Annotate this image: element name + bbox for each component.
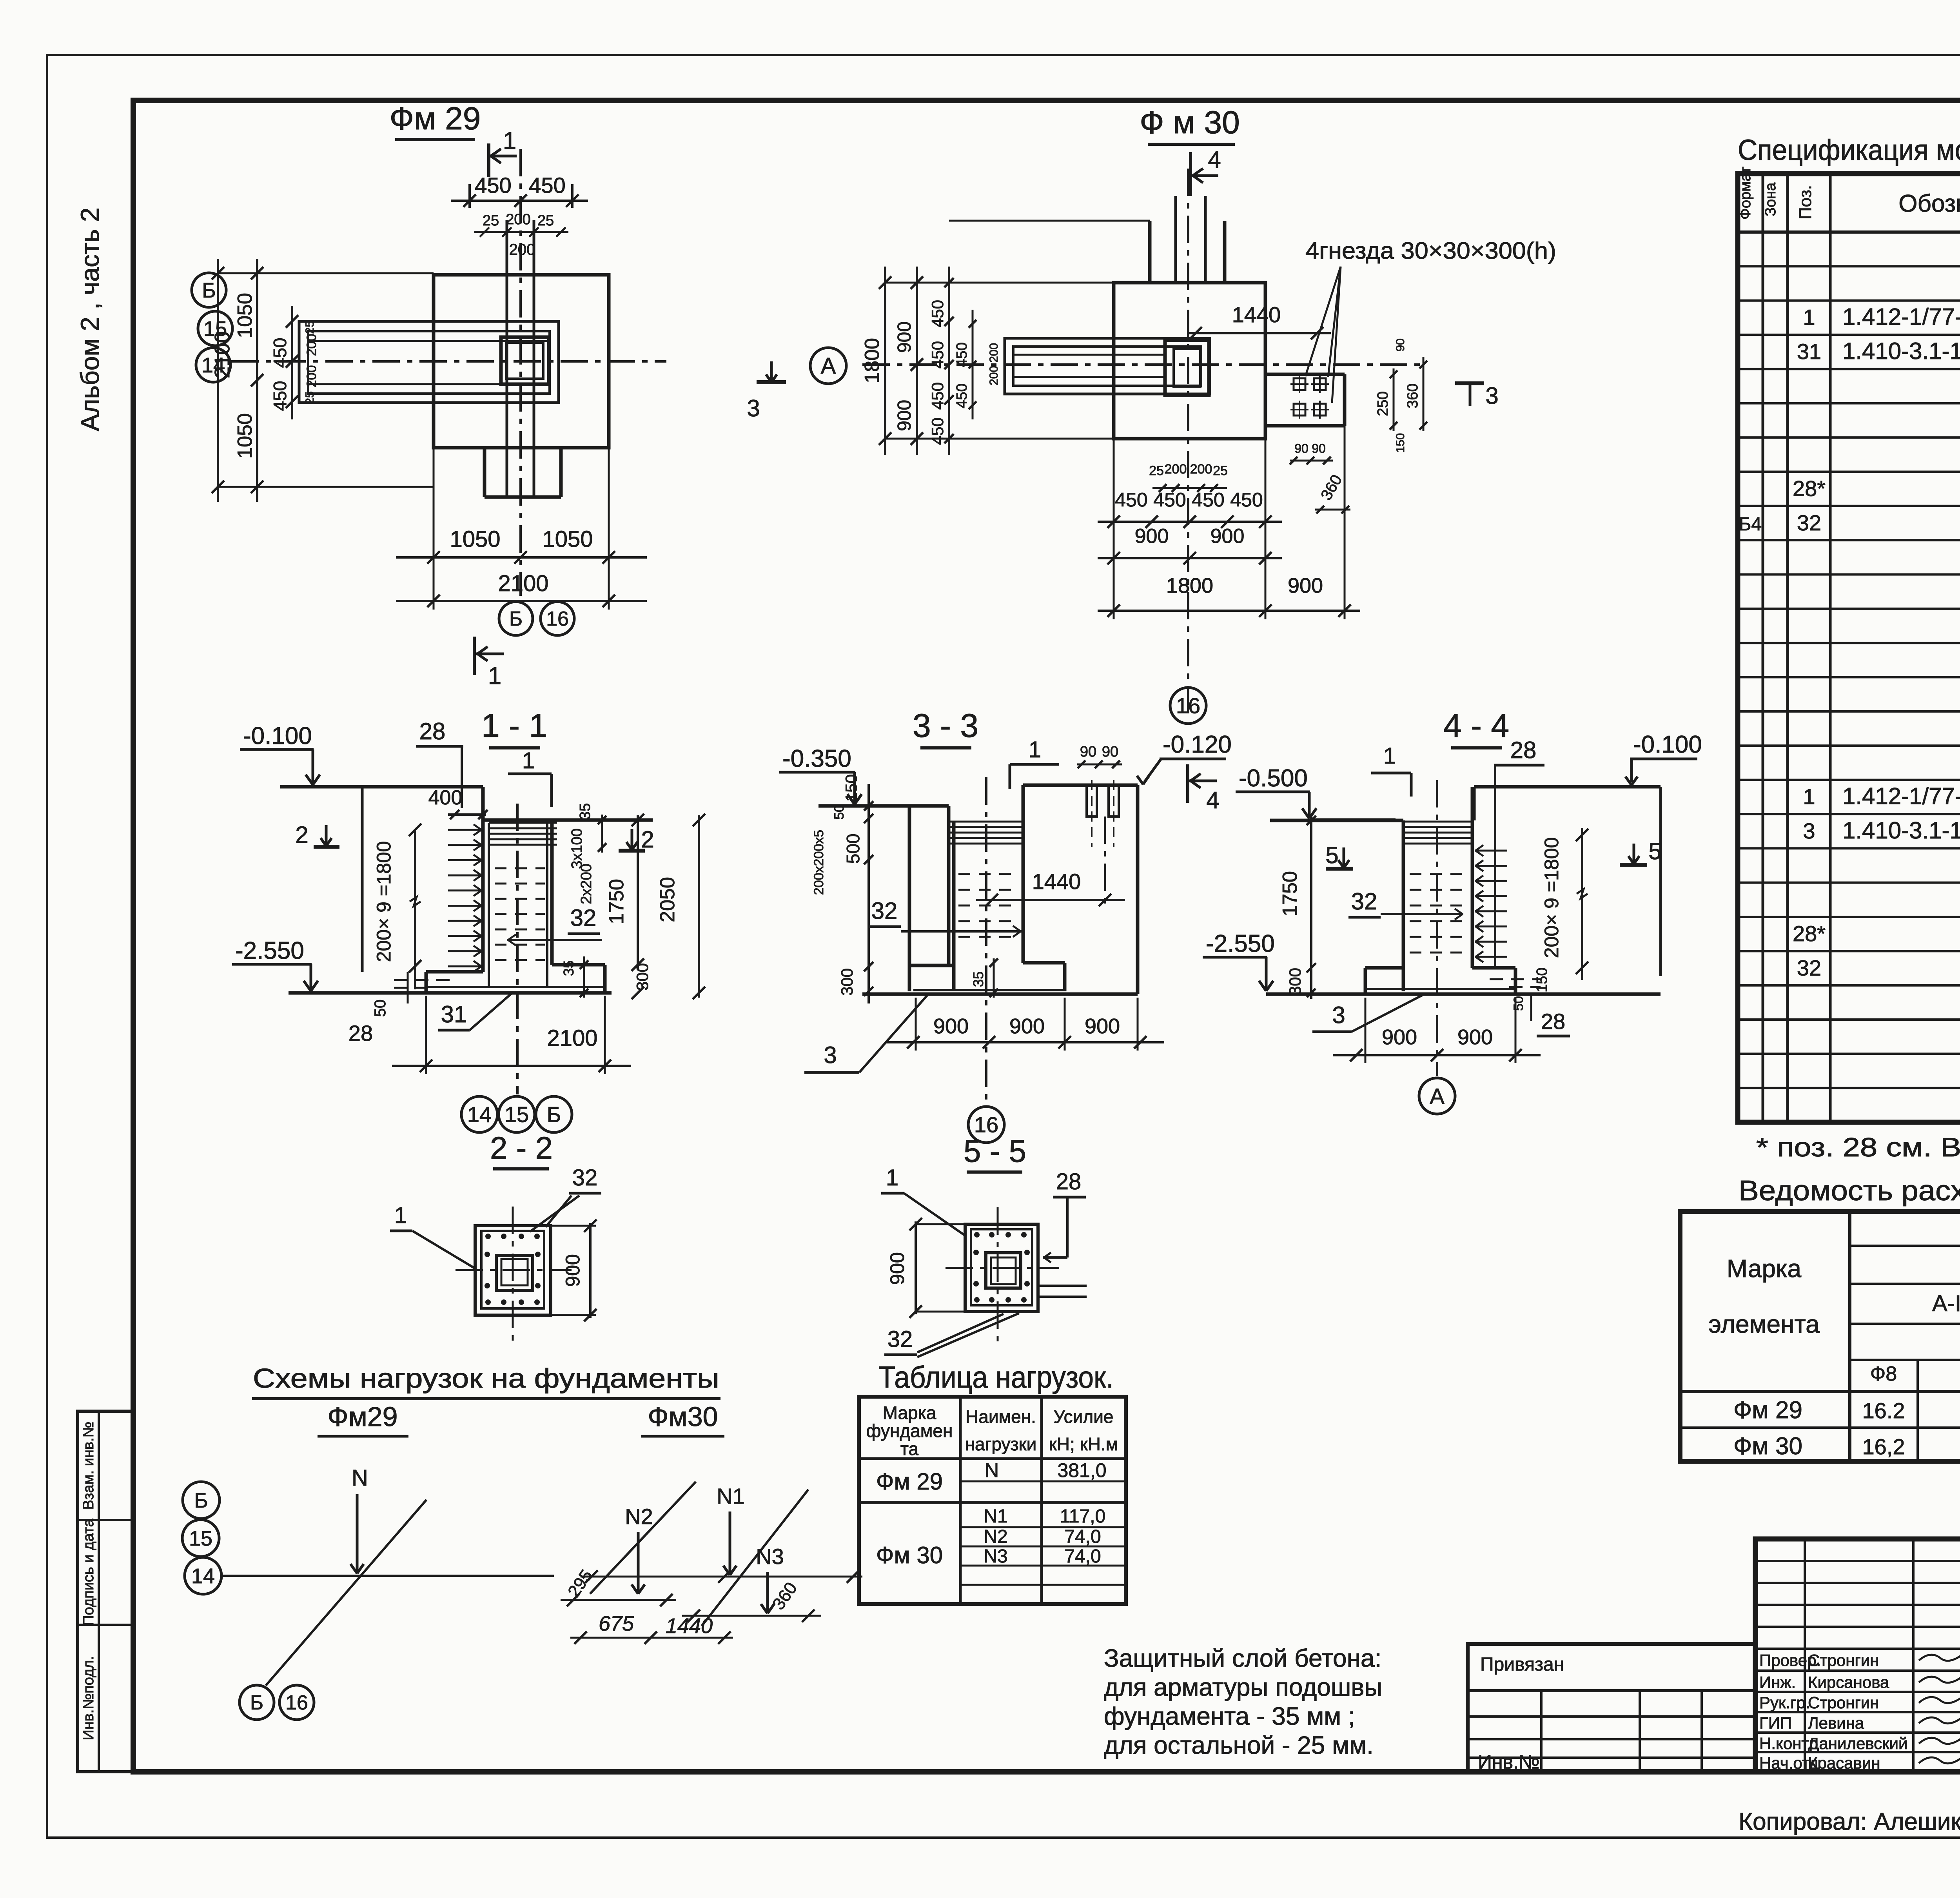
section 4-4 mesh bbox=[1403, 821, 1472, 823]
svg-text:25: 25 bbox=[483, 212, 499, 229]
svg-text:300: 300 bbox=[838, 968, 856, 996]
plan Fm30 sockets bbox=[1294, 378, 1305, 390]
svg-text:Взам. инв.№: Взам. инв.№ bbox=[80, 1422, 97, 1510]
svg-text:для остальной - 25 мм.: для остальной - 25 мм. bbox=[1104, 1731, 1374, 1759]
svg-text:200× 9 =1800: 200× 9 =1800 bbox=[1541, 837, 1563, 958]
svg-text:5: 5 bbox=[1325, 842, 1338, 868]
svg-text:450: 450 bbox=[928, 341, 947, 368]
section 3-3 left dim chain bbox=[867, 784, 870, 1003]
svg-text:3 - 3: 3 - 3 bbox=[913, 707, 978, 744]
svg-text:2050: 2050 bbox=[656, 877, 679, 922]
svg-text:Спецификация монолитных фунд: Спецификация монолитных фундаментов Фм29… bbox=[1738, 134, 1960, 166]
svg-text:Марка: Марка bbox=[1727, 1254, 1802, 1283]
detail 2-2 axes bbox=[456, 1269, 572, 1271]
svg-text:32: 32 bbox=[1351, 888, 1377, 915]
plan Fm30 extension lines left bbox=[949, 220, 1150, 222]
svg-text:N2: N2 bbox=[984, 1526, 1007, 1547]
svg-text:25: 25 bbox=[1213, 463, 1228, 478]
svg-text:300: 300 bbox=[1286, 968, 1304, 995]
svg-text:15: 15 bbox=[189, 1527, 212, 1550]
main title block bbox=[1755, 1539, 1960, 1772]
svg-text:16: 16 bbox=[546, 608, 569, 630]
svg-text:Подпись и дата: Подпись и дата bbox=[80, 1518, 97, 1626]
svg-text:500: 500 bbox=[843, 834, 863, 864]
detail 2-2 squares bbox=[475, 1226, 551, 1315]
svg-text:450: 450 bbox=[928, 300, 947, 327]
svg-text:90: 90 bbox=[1394, 338, 1407, 351]
svg-text:3: 3 bbox=[1803, 818, 1815, 843]
svg-text:1050: 1050 bbox=[542, 526, 593, 552]
section 4-4 surfaces bbox=[1474, 785, 1661, 789]
svg-text:900: 900 bbox=[562, 1254, 584, 1287]
svg-text:Фм 30: Фм 30 bbox=[876, 1542, 943, 1568]
svg-text:кН; кН.м: кН; кН.м bbox=[1049, 1434, 1118, 1454]
svg-text:1 - 1: 1 - 1 bbox=[481, 707, 547, 744]
svg-text:Фм 30: Фм 30 bbox=[1733, 1433, 1802, 1460]
svg-text:-2.550: -2.550 bbox=[1206, 930, 1275, 957]
svg-text:200× 9 =1800: 200× 9 =1800 bbox=[373, 841, 395, 962]
svg-text:150: 150 bbox=[842, 774, 860, 802]
scheme Fm30 dim lines bbox=[581, 1576, 862, 1578]
svg-text:Поз.: Поз. bbox=[1796, 185, 1815, 220]
svg-text:25: 25 bbox=[303, 321, 316, 334]
svg-text:450: 450 bbox=[928, 417, 947, 445]
plan Fm29 footing outline bbox=[434, 275, 609, 448]
svg-text:900: 900 bbox=[886, 1252, 908, 1285]
svg-text:фундамен: фундамен bbox=[866, 1421, 953, 1441]
section 1-1 column rebars bbox=[488, 823, 490, 986]
svg-text:2: 2 bbox=[641, 826, 654, 853]
svg-text:1440: 1440 bbox=[1032, 869, 1081, 894]
svg-text:Стронгин: Стронгин bbox=[1808, 1693, 1879, 1712]
plan Fm29 top dims 450 450 bbox=[468, 184, 471, 208]
svg-text:N3: N3 bbox=[984, 1546, 1007, 1567]
svg-text:Данилевский: Данилевский bbox=[1808, 1734, 1907, 1753]
svg-text:50: 50 bbox=[1511, 996, 1526, 1011]
svg-text:74,0: 74,0 bbox=[1064, 1526, 1101, 1547]
section 4-4 axis and circle A bbox=[1436, 780, 1438, 1076]
svg-text:900: 900 bbox=[1009, 1014, 1045, 1038]
plan Fm29 axes bbox=[231, 360, 666, 363]
svg-text:Формат: Формат bbox=[1737, 167, 1754, 220]
detail 5-5 rebar dots bbox=[974, 1232, 980, 1238]
svg-text:3: 3 bbox=[824, 1042, 837, 1068]
specification table grid bbox=[1738, 174, 1960, 1122]
left margin stamp strip bbox=[78, 1411, 133, 1772]
svg-text:Б: Б bbox=[194, 1489, 208, 1512]
svg-text:360: 360 bbox=[1318, 472, 1345, 503]
section 4-4 footing bbox=[1365, 966, 1403, 970]
svg-text:Привязан: Привязан bbox=[1480, 1654, 1564, 1675]
svg-text:фундамента - 35 мм ;: фундамента - 35 мм ; bbox=[1104, 1702, 1355, 1730]
plan Fm30 right extension bbox=[1265, 373, 1345, 376]
section 1-1 bottom slab bars 28 bbox=[394, 979, 456, 981]
section 4-4 column outline bbox=[1402, 820, 1405, 991]
svg-text:300: 300 bbox=[633, 963, 652, 991]
svg-text:1.410-3.1-12: 1.410-3.1-12 bbox=[1842, 338, 1960, 364]
svg-text:-0.100: -0.100 bbox=[243, 722, 312, 749]
svg-text:Схемы нагрузок на фундамент: Схемы нагрузок на фундаменты bbox=[253, 1363, 719, 1394]
svg-text:2: 2 bbox=[295, 822, 308, 848]
plan Fm30 cut mark 4 top bbox=[1189, 152, 1192, 196]
svg-text:450: 450 bbox=[1115, 489, 1147, 511]
svg-text:14: 14 bbox=[467, 1102, 492, 1127]
svg-text:35: 35 bbox=[561, 960, 577, 976]
svg-text:элемента: элемента bbox=[1708, 1310, 1820, 1338]
svg-text:900: 900 bbox=[894, 400, 915, 431]
plan Fm29 extension lines bbox=[218, 272, 434, 274]
plan Fm30 footing outline bbox=[1114, 283, 1265, 439]
svg-text:1: 1 bbox=[503, 127, 516, 154]
svg-text:5: 5 bbox=[1648, 838, 1661, 864]
plan Fm30 cut mark 4 bottom bbox=[1186, 764, 1189, 803]
svg-text:1050: 1050 bbox=[234, 293, 256, 338]
svg-text:28: 28 bbox=[1056, 1169, 1082, 1194]
svg-text:32: 32 bbox=[1797, 955, 1821, 980]
section 3-3 mesh bbox=[950, 821, 1022, 823]
svg-text:Ф8: Ф8 bbox=[1870, 1363, 1897, 1385]
svg-text:50: 50 bbox=[372, 1000, 389, 1017]
svg-text:900: 900 bbox=[1210, 525, 1245, 548]
svg-text:675: 675 bbox=[599, 1612, 634, 1635]
svg-text:90: 90 bbox=[1102, 744, 1118, 760]
svg-text:450: 450 bbox=[270, 338, 290, 368]
svg-text:-0.350: -0.350 bbox=[782, 745, 851, 772]
plan Fm29 column slot verticals bbox=[506, 220, 508, 497]
svg-text:ГИП: ГИП bbox=[1759, 1714, 1792, 1732]
svg-text:200: 200 bbox=[987, 366, 1000, 385]
svg-text:Инв.№подл.: Инв.№подл. bbox=[80, 1656, 97, 1740]
svg-text:Фм 29: Фм 29 bbox=[1733, 1397, 1802, 1424]
svg-text:3: 3 bbox=[1332, 1002, 1345, 1028]
svg-text:Б4: Б4 bbox=[1739, 514, 1762, 535]
scheme Fm29 axis lines bbox=[222, 1575, 554, 1577]
detail 5-5 bar ends right bbox=[1038, 1285, 1087, 1287]
svg-text:200: 200 bbox=[506, 211, 530, 228]
detail 5-5 squares bbox=[965, 1224, 1038, 1312]
svg-text:200х200х5: 200х200х5 bbox=[811, 830, 826, 895]
svg-text:* поз. 28 см. Ведомость детал: * поз. 28 см. Ведомость деталей на листе… bbox=[1756, 1132, 1960, 1162]
svg-text:Кирсанова: Кирсанова bbox=[1808, 1673, 1889, 1691]
svg-text:Б: Б bbox=[547, 1102, 561, 1127]
svg-text:5 - 5: 5 - 5 bbox=[964, 1134, 1026, 1169]
svg-text:Таблица нагрузок.: Таблица нагрузок. bbox=[878, 1360, 1114, 1394]
section 1-1 ground line left bbox=[280, 785, 483, 789]
svg-text:1: 1 bbox=[1029, 737, 1041, 762]
svg-text:1: 1 bbox=[488, 662, 501, 690]
section 4-4 bottom slab bars 28 bbox=[1490, 978, 1541, 980]
svg-text:Б: Б bbox=[509, 608, 523, 630]
detail 2-2 rebar dots bbox=[485, 1234, 491, 1239]
svg-text:90: 90 bbox=[1294, 441, 1308, 455]
section 1-1 footing outline bbox=[552, 963, 605, 967]
svg-text:2100: 2100 bbox=[547, 1025, 597, 1051]
svg-text:16.2: 16.2 bbox=[1862, 1398, 1905, 1423]
svg-text:250: 250 bbox=[1375, 391, 1391, 416]
section 3-3 sockets bbox=[1087, 785, 1097, 817]
svg-text:400: 400 bbox=[428, 786, 463, 809]
svg-text:Ф м 30: Ф м 30 bbox=[1140, 105, 1240, 140]
svg-text:35: 35 bbox=[970, 971, 986, 987]
plan Fm29 left dim chains bbox=[217, 259, 219, 502]
svg-text:Б: Б bbox=[202, 279, 216, 302]
scheme Fm29 grid circles bbox=[183, 1482, 220, 1519]
section 1-1 ground line right and column top bbox=[483, 818, 653, 822]
svg-text:3: 3 bbox=[747, 395, 760, 421]
svg-text:N: N bbox=[985, 1459, 999, 1481]
svg-text:900: 900 bbox=[1135, 525, 1169, 548]
svg-text:32: 32 bbox=[570, 905, 597, 931]
svg-text:4гнезда 30×30×300(h): 4гнезда 30×30×300(h) bbox=[1305, 238, 1556, 264]
svg-text:900: 900 bbox=[894, 321, 915, 353]
svg-text:1750: 1750 bbox=[605, 879, 628, 924]
svg-text:N3: N3 bbox=[756, 1544, 784, 1569]
svg-text:450: 450 bbox=[529, 173, 565, 198]
svg-text:32: 32 bbox=[572, 1165, 598, 1190]
svg-text:117,0: 117,0 bbox=[1060, 1506, 1106, 1527]
small privyazan table bbox=[1468, 1644, 1755, 1772]
svg-text:900: 900 bbox=[1288, 574, 1323, 597]
svg-text:А-I: А-I bbox=[1932, 1291, 1960, 1316]
svg-text:28*: 28* bbox=[1793, 921, 1826, 946]
svg-text:200: 200 bbox=[1190, 462, 1212, 477]
svg-text:150: 150 bbox=[1394, 433, 1407, 453]
svg-text:900: 900 bbox=[1382, 1025, 1417, 1049]
svg-text:Альбом 2 , часть 2: Альбом 2 , часть 2 bbox=[75, 207, 104, 431]
svg-text:1440: 1440 bbox=[666, 1614, 713, 1638]
svg-text:28: 28 bbox=[1541, 1009, 1565, 1034]
svg-text:-0.500: -0.500 bbox=[1239, 765, 1308, 792]
plan Fm30 rebar mesh bbox=[1005, 338, 1210, 394]
plan Fm30 top stub bbox=[1148, 221, 1152, 283]
svg-text:200: 200 bbox=[1165, 462, 1187, 477]
plan Fm29 cut mark 1 top bbox=[487, 143, 490, 177]
svg-text:Рук.гр.: Рук.гр. bbox=[1759, 1693, 1810, 1712]
svg-text:450: 450 bbox=[954, 383, 970, 408]
svg-text:28: 28 bbox=[1510, 737, 1537, 763]
svg-text:200: 200 bbox=[304, 334, 319, 356]
section 3-3 axis and circle 16 bbox=[985, 777, 987, 1105]
svg-text:900: 900 bbox=[1085, 1014, 1120, 1038]
svg-text:Обозначение: Обозначение bbox=[1898, 190, 1960, 217]
svg-text:16,2: 16,2 bbox=[1862, 1434, 1905, 1459]
svg-text:Защитный слой бетона:: Защитный слой бетона: bbox=[1104, 1644, 1381, 1672]
svg-text:450: 450 bbox=[1192, 489, 1224, 511]
svg-text:1: 1 bbox=[522, 748, 535, 773]
svg-text:Марка: Марка bbox=[883, 1403, 936, 1423]
svg-text:1750: 1750 bbox=[1279, 871, 1301, 916]
svg-text:1050: 1050 bbox=[234, 413, 256, 459]
plan Fm30 bottom circle 16 bbox=[1170, 688, 1206, 724]
svg-text:1: 1 bbox=[1803, 305, 1815, 330]
svg-text:Инв.№: Инв.№ bbox=[1478, 1751, 1540, 1773]
svg-text:3: 3 bbox=[1485, 383, 1498, 409]
svg-text:31: 31 bbox=[1797, 339, 1821, 364]
svg-text:360: 360 bbox=[1405, 383, 1421, 408]
svg-text:1.412-1/77-В.3-020: 1.412-1/77-В.3-020 bbox=[1842, 783, 1960, 809]
svg-text:16: 16 bbox=[1176, 693, 1200, 718]
svg-text:Копировал: Алешикова: Копировал: Алешикова bbox=[1739, 1808, 1960, 1835]
svg-text:1800: 1800 bbox=[861, 338, 884, 383]
svg-text:15: 15 bbox=[505, 1102, 529, 1127]
svg-text:1050: 1050 bbox=[450, 526, 500, 552]
svg-text:90: 90 bbox=[1312, 441, 1326, 455]
plan Fm30 grid circle A bbox=[810, 348, 846, 384]
svg-text:-2.550: -2.550 bbox=[235, 937, 304, 964]
plan Fm30 left dim chains bbox=[884, 267, 886, 455]
svg-text:32: 32 bbox=[871, 898, 898, 924]
svg-text:Фм30: Фм30 bbox=[648, 1401, 718, 1432]
svg-text:4: 4 bbox=[1208, 147, 1221, 173]
svg-text:N1: N1 bbox=[717, 1484, 745, 1508]
detail 2-2 dim 900 bbox=[589, 1223, 592, 1318]
svg-text:2100: 2100 bbox=[211, 331, 234, 378]
svg-text:Левина: Левина bbox=[1808, 1714, 1864, 1732]
svg-text:1: 1 bbox=[394, 1203, 407, 1228]
svg-text:Зона: Зона bbox=[1762, 182, 1779, 216]
svg-text:Ведомость расхода стали на оди: Ведомость расхода стали на один элемент,… bbox=[1739, 1175, 1960, 1207]
plan Fm29 cut mark 1 bottom bbox=[473, 637, 476, 675]
svg-text:900: 900 bbox=[1457, 1025, 1493, 1049]
scheme Fm30 diagonals bbox=[590, 1482, 696, 1594]
svg-text:25: 25 bbox=[303, 391, 316, 404]
svg-text:360: 360 bbox=[769, 1579, 801, 1613]
svg-text:295: 295 bbox=[564, 1566, 596, 1601]
svg-text:90: 90 bbox=[1080, 744, 1096, 760]
svg-text:14: 14 bbox=[191, 1564, 215, 1588]
svg-text:1.412-1/77-В.3-020: 1.412-1/77-В.3-020 bbox=[1842, 304, 1960, 330]
loads table grid bbox=[859, 1397, 1126, 1604]
svg-text:74,0: 74,0 bbox=[1064, 1546, 1101, 1567]
svg-text:1: 1 bbox=[1383, 743, 1396, 769]
svg-text:31: 31 bbox=[441, 1001, 467, 1027]
svg-text:Стронгин: Стронгин bbox=[1808, 1651, 1879, 1669]
svg-text:N: N bbox=[352, 1465, 368, 1491]
plan Fm29 left grid circles bbox=[192, 273, 226, 307]
svg-text:32: 32 bbox=[1797, 510, 1821, 535]
svg-text:25: 25 bbox=[1149, 463, 1164, 478]
svg-text:200: 200 bbox=[987, 343, 1000, 363]
svg-text:нагрузки: нагрузки bbox=[965, 1434, 1037, 1454]
svg-text:Фм29: Фм29 bbox=[327, 1401, 397, 1432]
svg-text:N1: N1 bbox=[984, 1506, 1007, 1527]
svg-text:450: 450 bbox=[1153, 489, 1186, 511]
svg-text:450: 450 bbox=[928, 382, 947, 410]
svg-text:2х200: 2х200 bbox=[578, 864, 595, 904]
svg-text:450: 450 bbox=[475, 173, 511, 198]
svg-text:450: 450 bbox=[270, 381, 290, 411]
svg-text:3х100: 3х100 bbox=[569, 828, 585, 869]
detail 5-5 axes bbox=[946, 1267, 1059, 1269]
svg-text:35: 35 bbox=[577, 803, 593, 820]
svg-text:900: 900 bbox=[933, 1014, 969, 1038]
svg-text:Фм 29: Фм 29 bbox=[876, 1468, 943, 1495]
svg-text:32: 32 bbox=[887, 1326, 913, 1352]
svg-text:1: 1 bbox=[886, 1165, 898, 1190]
svg-text:450: 450 bbox=[1230, 489, 1263, 511]
plan Fm30 axes bbox=[862, 363, 1423, 366]
svg-text:50: 50 bbox=[832, 805, 847, 820]
svg-text:Наимен.: Наимен. bbox=[965, 1406, 1036, 1427]
svg-text:450: 450 bbox=[954, 342, 970, 367]
svg-text:Б: Б bbox=[250, 1691, 263, 1714]
svg-text:4: 4 bbox=[1206, 787, 1219, 813]
steel table grid bbox=[1680, 1212, 1960, 1461]
svg-text:2100: 2100 bbox=[498, 571, 548, 596]
svg-text:А: А bbox=[821, 353, 836, 379]
section 1-1 tie spacing arrows bbox=[448, 829, 481, 831]
svg-text:Фм 29: Фм 29 bbox=[390, 101, 481, 136]
svg-text:1.410-3.1-12: 1.410-3.1-12 bbox=[1842, 817, 1960, 844]
section 3-3 top left surface bbox=[818, 804, 949, 808]
svg-text:Усилие: Усилие bbox=[1054, 1406, 1114, 1427]
plan Fm29 rebar mesh bbox=[299, 321, 559, 403]
svg-text:200: 200 bbox=[304, 365, 319, 388]
svg-text:Красавин: Красавин bbox=[1808, 1754, 1880, 1772]
plan Fm29 bottom grid circles bbox=[499, 602, 533, 635]
svg-text:200: 200 bbox=[509, 241, 535, 258]
svg-text:28: 28 bbox=[348, 1021, 373, 1045]
svg-text:1440: 1440 bbox=[1232, 302, 1281, 327]
svg-text:2 - 2: 2 - 2 bbox=[490, 1130, 553, 1165]
svg-text:1800: 1800 bbox=[1166, 574, 1213, 597]
section 3-3 outline bbox=[908, 806, 911, 991]
section 1-1 column outline bbox=[481, 787, 485, 972]
section 4-4 tie arrows right bbox=[1475, 850, 1507, 852]
plan Fm30 cut marks 3 bbox=[757, 380, 786, 384]
svg-text:-0.120: -0.120 bbox=[1163, 731, 1232, 758]
svg-text:381,0: 381,0 bbox=[1057, 1459, 1106, 1481]
svg-text:4 - 4: 4 - 4 bbox=[1443, 707, 1509, 744]
plan Fm29 bottom dims bbox=[433, 448, 435, 610]
svg-text:16: 16 bbox=[285, 1691, 308, 1714]
svg-text:-0.100: -0.100 bbox=[1633, 731, 1702, 758]
svg-text:А: А bbox=[1430, 1084, 1445, 1109]
svg-text:28: 28 bbox=[419, 718, 446, 744]
svg-text:та: та bbox=[900, 1439, 919, 1459]
svg-text:N2: N2 bbox=[625, 1504, 653, 1529]
section 1-1 axis bbox=[516, 804, 519, 1094]
scheme Fm29 bottom circles bbox=[240, 1685, 274, 1720]
plan Fm30 extensions bottom bbox=[1113, 439, 1115, 619]
section 1-1 grid circles bbox=[461, 1096, 497, 1132]
svg-text:1: 1 bbox=[1803, 784, 1815, 809]
svg-text:25: 25 bbox=[537, 212, 554, 229]
detail 5-5 dim 900 left bbox=[915, 1221, 917, 1314]
svg-text:для арматуры подошвы: для арматуры подошвы bbox=[1104, 1673, 1382, 1701]
svg-text:Инж.: Инж. bbox=[1759, 1673, 1796, 1691]
svg-text:28*: 28* bbox=[1793, 476, 1826, 501]
